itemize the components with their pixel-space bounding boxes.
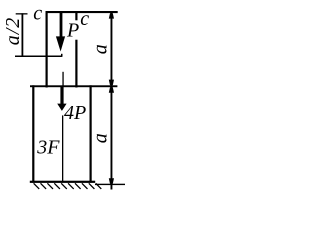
svg-text:4P: 4P [64,102,86,124]
right dimension arrowheads at shoulder [109,80,114,86]
white box under label P (cuts right edge) [65,20,81,39]
lower column left edge [32,85,34,182]
left dimension a/2 vertical line [22,13,24,56]
bottom dimension tick [95,184,125,185]
force arrow P head [56,36,65,51]
ground line [30,181,95,183]
left dimension bottom tick (extends to force line) [15,56,62,58]
svg-text:3F: 3F [36,137,60,159]
right dimension arrowhead bottom (points down) [109,178,114,184]
top edge of upper column and dimension extension tick [46,11,118,13]
small up-nub at end of bottom tick [61,54,63,57]
centerline of lower column (lower thin part) [62,115,63,182]
ground hatching [34,183,102,189]
right dimension vertical line [111,12,113,190]
force arrow 4P head [57,104,66,111]
force arrow 4P bold shaft [60,86,63,104]
force arrow P shaft [60,13,63,39]
svg-text:P: P [66,19,79,41]
svg-text:a/2: a/2 [2,17,24,46]
upper column left edge [46,11,48,88]
svg-text:c: c [80,8,89,30]
lower column right edge [90,85,92,182]
svg-text:c: c [33,3,42,25]
left dimension top tick [16,13,28,14]
upper column right edge [75,11,77,88]
right dimension arrowhead top (points up) [109,13,114,18]
centerline of lower column (upper thin part) [62,72,63,87]
svg-text:a: a [90,44,112,54]
shoulder line (top of lower column) with right extension tick [30,85,117,87]
svg-text:a: a [90,133,112,143]
white box under label 4P [65,106,86,120]
